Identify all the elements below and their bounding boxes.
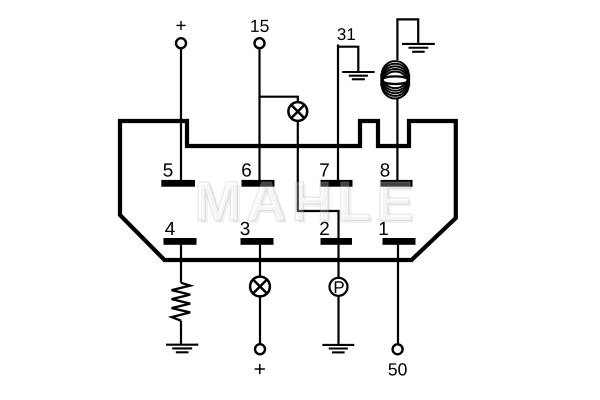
wire + to pin 5 xyxy=(180,49,182,180)
terminal + (top) label xyxy=(176,21,185,30)
terminal circle 15 xyxy=(255,38,265,48)
pin 1 bar xyxy=(383,238,416,245)
wire branch 31 to ground xyxy=(338,47,358,71)
pin 6 label xyxy=(242,163,251,176)
wire P to ground xyxy=(337,296,339,344)
pin 4 label xyxy=(165,222,175,235)
terminal 50 label xyxy=(389,363,407,375)
pin 2 bar xyxy=(321,238,353,245)
pin 5 label xyxy=(163,163,172,176)
connector housing outline xyxy=(120,121,456,260)
pin 1 label xyxy=(380,222,388,235)
pin 3 label xyxy=(240,222,249,235)
terminal circle + top xyxy=(176,38,186,48)
wire lamp to pin 2 xyxy=(298,121,339,239)
wire resistor to ground xyxy=(180,321,182,344)
pin 8 bar xyxy=(381,180,413,187)
wire coil to pin 8 xyxy=(396,98,398,180)
terminal 15 label xyxy=(251,20,268,32)
pin 6 bar xyxy=(242,180,275,187)
wire pin 1 to 50 xyxy=(397,245,399,344)
wire pin 2 to P xyxy=(337,245,339,278)
ground (31 branch) xyxy=(342,72,375,79)
pin 5 bar xyxy=(161,180,195,187)
terminal 31 label xyxy=(337,28,354,40)
pin 7 bar xyxy=(321,180,353,187)
ground (below P) xyxy=(322,345,354,353)
wire branch 15 to lamp xyxy=(260,97,298,102)
pin 8 label xyxy=(381,163,390,176)
wire pin 4 to resistor xyxy=(180,245,182,283)
pin 7 label xyxy=(320,163,329,176)
pin 4 bar xyxy=(164,238,197,245)
terminal circle + bottom xyxy=(255,344,265,354)
terminal + (bottom) label xyxy=(255,364,265,374)
wire pin 3 to lamp xyxy=(259,245,261,277)
ground (below resistor) xyxy=(166,345,198,353)
ground (top right) xyxy=(402,44,435,52)
indicator lamp (top) xyxy=(288,102,307,121)
resistor R1 xyxy=(172,283,191,321)
indicator lamp (bottom) xyxy=(250,277,270,297)
pressure switch P xyxy=(330,278,348,296)
wire 15 to pin 6 xyxy=(258,49,260,180)
wire coil to top-right ground xyxy=(397,19,418,60)
coil L1 xyxy=(382,61,409,98)
MAHLE watermark xyxy=(201,184,414,223)
terminal circle 50 xyxy=(393,344,403,354)
pin 2 label xyxy=(320,222,329,235)
wire 31 to pin 7 xyxy=(337,45,339,181)
pin 3 bar xyxy=(241,238,274,245)
wire lamp to + terminal xyxy=(259,296,261,344)
